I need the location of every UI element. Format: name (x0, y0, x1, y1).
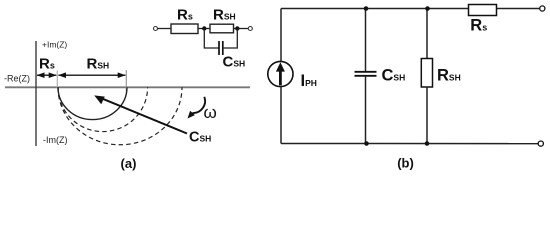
tick at Rs (x=57) (56, 71, 58, 89)
current source arrow (279, 69, 282, 85)
dashed semicircle 2 (58, 87, 182, 144)
resistor Rsh (inset box) (210, 24, 234, 33)
dimension arrow Rsh (59, 74, 126, 76)
capacitor Csh (plates) (355, 71, 377, 73)
axis: vertical Im(Z) axis (35, 41, 37, 146)
node dot (left junction) (202, 26, 206, 30)
tick at Rs+Rsh (x=126) (125, 70, 127, 92)
junction dot bottom-right (Rsh) (425, 141, 430, 146)
junction dot bottom-left (Csh) (364, 141, 369, 146)
wire left vertical (bottom) (280, 87, 282, 144)
wire top (left section) (281, 8, 468, 10)
terminal right (open circle) (248, 27, 252, 31)
svg-text:RSH: RSH (213, 7, 236, 24)
resistor Rsh (vertical box) (421, 59, 432, 88)
terminal left (open circle) (154, 27, 158, 31)
svg-text:-Im(Z): -Im(Z) (43, 135, 68, 145)
node dot (right junction) (235, 26, 239, 30)
wire (capacitor branch, left drop) (204, 29, 219, 49)
svg-text:(a): (a) (121, 156, 137, 171)
capacitor Csh (inset plates) (218, 41, 220, 55)
wire (234, 28, 249, 30)
svg-text:RSH: RSH (437, 67, 461, 85)
svg-text:CSH: CSH (223, 54, 246, 71)
svg-text:+Im(Z): +Im(Z) (42, 40, 67, 50)
junction dot top-left (Csh) (364, 6, 369, 11)
wire bottom (281, 143, 538, 145)
current source Iph (circle) (268, 61, 293, 86)
omega curved arrow (193, 97, 206, 113)
wire Rsh branch (bottom) (426, 87, 428, 144)
terminal bottom right (open circle) (538, 141, 543, 146)
wire (198, 28, 211, 30)
svg-text:RSH: RSH (87, 56, 110, 73)
arrow Csh (increasing Csh direction) (100, 98, 187, 134)
svg-text:(b): (b) (397, 156, 414, 171)
svg-text:Rs: Rs (470, 17, 487, 35)
svg-text:CSH: CSH (189, 130, 211, 146)
dimension arrow Rs (37, 74, 56, 76)
svg-text:ω: ω (204, 103, 217, 122)
resistor Rs (horizontal box, panel b) (469, 5, 497, 16)
svg-text:Rs: Rs (39, 56, 55, 73)
solid semicircle (nominal impedance locus) (58, 87, 127, 119)
svg-text:-Re(Z): -Re(Z) (4, 74, 30, 84)
wire (158, 28, 172, 30)
wire Csh branch (bottom) (365, 77, 367, 144)
dashed semicircle 1 (58, 87, 148, 131)
resistor Rs (inset box) (171, 24, 198, 34)
junction dot top-right (Rsh) (425, 6, 430, 11)
axis: horizontal -Re(Z) axis (5, 86, 250, 88)
wire left vertical (top) (280, 9, 282, 62)
svg-text:IPH: IPH (301, 72, 317, 90)
wire top (right section after Rs) (497, 8, 540, 10)
terminal top right (open circle) (540, 6, 545, 11)
svg-text:Rs: Rs (177, 7, 193, 24)
wire Csh branch (top) (365, 9, 367, 72)
svg-text:CSH: CSH (382, 67, 406, 85)
wire (capacitor branch, right rise) (224, 29, 238, 49)
wire Rsh branch (top) (426, 9, 428, 60)
